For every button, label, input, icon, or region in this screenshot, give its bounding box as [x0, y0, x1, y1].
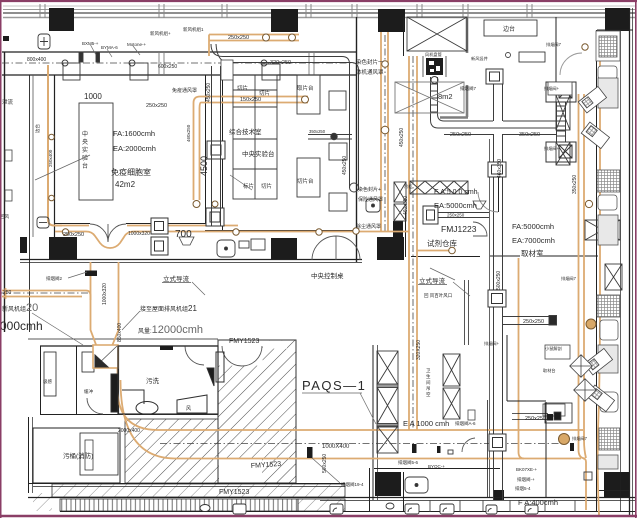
svg-text:排烟阀7: 排烟阀7	[572, 435, 588, 442]
svg-text:E A:5 0 0 cmh: E A:5 0 0 cmh	[434, 189, 478, 196]
svg-text:边台: 边台	[503, 25, 515, 33]
svg-text:立式导流: 立式导流	[419, 276, 446, 285]
svg-text:FMY1523: FMY1523	[229, 338, 259, 345]
svg-text:卫生间吊空: 卫生间吊空	[426, 368, 431, 397]
svg-text:700: 700	[175, 229, 192, 240]
svg-text:排烟5-4: 排烟5-4	[515, 485, 531, 492]
svg-text:250x400: 250x400	[48, 149, 53, 167]
svg-text:染色封片+: 染色封片+	[358, 186, 381, 193]
svg-text:250x250: 250x250	[63, 232, 84, 238]
svg-text:回 风百叶风口: 回 风百叶风口	[424, 292, 452, 299]
svg-text:250x250: 250x250	[523, 319, 544, 325]
svg-text:排烟阀A-6: 排烟阀A-6	[455, 420, 476, 427]
svg-text:460x350: 460x350	[403, 196, 409, 215]
svg-text:250x250: 250x250	[525, 416, 546, 422]
svg-text:42m2: 42m2	[115, 180, 136, 189]
svg-text:中央控制桌: 中央控制桌	[311, 271, 344, 280]
svg-text:中央实验台: 中央实验台	[82, 130, 88, 170]
svg-text:风机盘管: 风机盘管	[425, 51, 442, 58]
svg-text:泄流: 泄流	[2, 98, 14, 106]
svg-text:2000x400: 2000x400	[118, 428, 140, 434]
svg-text:体机通风罩: 体机通风罩	[356, 68, 384, 76]
svg-text:000cmh: 000cmh	[0, 319, 43, 333]
svg-text:250x250: 250x250	[228, 35, 249, 41]
svg-text:排烟阀7: 排烟阀7	[460, 85, 476, 92]
svg-text:FMJ1223: FMJ1223	[441, 224, 477, 234]
svg-text:1000X400: 1000X400	[322, 444, 350, 450]
svg-text:FA:5000cmh: FA:5000cmh	[512, 222, 554, 231]
svg-text:BYMA-6: BYMA-6	[101, 45, 118, 50]
svg-text:边台: 边台	[34, 124, 41, 133]
svg-text:320X250: 320X250	[416, 340, 422, 360]
svg-text:污桶(消防): 污桶(消防)	[63, 451, 93, 460]
svg-text:1000: 1000	[84, 92, 102, 101]
svg-text:切片: 切片	[259, 89, 270, 97]
svg-text:染色封片一: 染色封片一	[356, 58, 384, 66]
svg-text:FMY1523: FMY1523	[219, 489, 249, 496]
svg-text:EA:2000cmh: EA:2000cmh	[113, 144, 156, 153]
svg-text:320x250: 320x250	[270, 60, 291, 66]
svg-text:250x250: 250x250	[450, 132, 471, 138]
svg-text:250x250: 250x250	[146, 103, 167, 109]
svg-text:560x250: 560x250	[322, 454, 328, 473]
svg-text:取材台: 取材台	[543, 367, 556, 374]
svg-text:缓冲: 缓冲	[84, 388, 93, 395]
svg-text:250x250: 250x250	[447, 213, 465, 218]
svg-text:除尘通风罩: 除尘通风罩	[356, 223, 381, 230]
svg-text:立式导流: 立式导流	[163, 274, 190, 283]
svg-text:排烟阀+: 排烟阀+	[484, 340, 500, 347]
svg-text:风: 风	[186, 406, 191, 412]
svg-text:排烟阀-+: 排烟阀-+	[517, 476, 535, 483]
svg-text:4500: 4500	[199, 156, 209, 176]
svg-text:450x250: 450x250	[399, 128, 405, 147]
svg-text:新风机组1: 新风机组1	[183, 26, 204, 33]
svg-text:排烟阀5-6: 排烟阀5-6	[398, 459, 419, 466]
svg-text:排烟阀+: 排烟阀+	[544, 85, 560, 92]
svg-text:新风机组+: 新风机组+	[150, 30, 171, 37]
svg-text:切片: 切片	[261, 182, 272, 190]
svg-text:吊柜: 吊柜	[404, 183, 412, 190]
svg-text:取片台: 取片台	[297, 84, 314, 92]
svg-text:1000x320: 1000x320	[128, 231, 150, 237]
svg-text:取材室: 取材室	[521, 248, 544, 258]
svg-text:F A:400cmh: F A:400cmh	[518, 498, 558, 507]
svg-text:500x250: 500x250	[496, 271, 502, 290]
svg-text:中央实验台: 中央实验台	[242, 149, 275, 158]
svg-text:排烟阀2: 排烟阀2	[46, 275, 62, 282]
svg-text:BK07XE-+: BK07XE-+	[516, 467, 538, 472]
svg-text:350x250: 350x250	[519, 132, 540, 138]
svg-text:600x250: 600x250	[158, 64, 177, 70]
svg-text:排烟阀7: 排烟阀7	[546, 41, 562, 48]
svg-text:免疫细胞室: 免疫细胞室	[111, 167, 151, 177]
svg-text:350x250: 350x250	[572, 175, 578, 194]
svg-text:FA:1600cmh: FA:1600cmh	[113, 129, 155, 138]
svg-text:综合技术室: 综合技术室	[229, 127, 262, 136]
svg-text:试剂仓库: 试剂仓库	[427, 238, 457, 248]
svg-text:E A 1000 cmh: E A 1000 cmh	[403, 419, 449, 428]
svg-text:8m2: 8m2	[438, 92, 453, 101]
svg-text:标片: 标片	[243, 182, 254, 190]
svg-text:EA:5000cmh: EA:5000cmh	[434, 201, 477, 210]
svg-text:极感: 极感	[43, 378, 52, 385]
svg-text:EA:7000cmh: EA:7000cmh	[512, 236, 555, 245]
svg-text:800x400: 800x400	[27, 57, 46, 63]
svg-text:350x250: 350x250	[309, 129, 326, 134]
svg-text:污洗: 污洗	[146, 376, 160, 385]
svg-text:460x350: 460x350	[497, 159, 503, 178]
svg-text:250: 250	[3, 290, 12, 296]
svg-text:460x250: 460x250	[186, 124, 191, 142]
svg-text:850x400: 850x400	[117, 323, 123, 342]
svg-text:450x250: 450x250	[342, 156, 348, 175]
svg-text:450x250: 450x250	[206, 83, 212, 102]
svg-text:Motone-+: Motone-+	[127, 42, 147, 47]
svg-text:150x250: 150x250	[240, 97, 261, 103]
svg-text:排烟阀+: 排烟阀+	[544, 145, 560, 152]
svg-text:1000x320: 1000x320	[102, 283, 108, 305]
svg-text:免疫通风罩: 免疫通风罩	[172, 87, 197, 94]
svg-text:新风竖井: 新风竖井	[471, 55, 488, 62]
svg-text:切片台: 切片台	[297, 177, 314, 185]
svg-text:排烟阀19-4: 排烟阀19-4	[341, 481, 364, 488]
svg-text:切片: 切片	[237, 84, 248, 92]
svg-text:BYOC-+: BYOC-+	[428, 464, 445, 469]
svg-text:PAQS—1: PAQS—1	[302, 378, 366, 393]
svg-text:排烟阀7: 排烟阀7	[561, 275, 577, 282]
svg-text:小鼠解剖: 小鼠解剖	[545, 345, 562, 352]
svg-text:保险通风罩: 保险通风罩	[358, 196, 383, 203]
